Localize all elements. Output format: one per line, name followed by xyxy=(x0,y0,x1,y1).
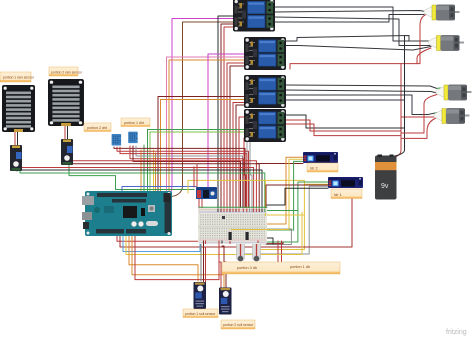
wire darkred ldr1 x256 xyxy=(257,163,303,165)
svg-text:portion 3 db: portion 3 db xyxy=(237,266,257,270)
wire black relay3 motor3 a xyxy=(286,85,437,89)
wire gray loop right xyxy=(266,229,291,245)
wire yellow ldr1 xyxy=(231,159,303,229)
svg-text:portion 2 dht: portion 2 dht xyxy=(87,126,107,130)
wire black relay1 down xyxy=(218,16,236,208)
wire green relay4 bus xyxy=(148,130,245,193)
relay module K2 xyxy=(244,37,286,70)
wire red rtc down xyxy=(193,167,195,187)
wire red relay4 battery xyxy=(286,124,401,136)
wire black relay2 motor2 b xyxy=(286,46,431,51)
motor M2 xyxy=(429,35,465,51)
wire relay1 motor1 b xyxy=(274,11,425,13)
wire red soil1 xyxy=(205,247,207,282)
wire black relay3 merge xyxy=(286,99,405,101)
rtc module xyxy=(196,187,217,199)
wire black relay3 motor4 xyxy=(286,95,435,115)
ldr module 1 xyxy=(303,152,338,163)
label ldr 1 xyxy=(331,189,362,199)
label portion 1 soil sensor xyxy=(183,309,218,318)
wire red rtc down2 xyxy=(196,164,198,187)
wire darkred soil bundle2 xyxy=(222,246,226,288)
wire red soil bundle xyxy=(219,236,221,289)
wire red x397 motor4 xyxy=(392,64,401,158)
label ldr 2 xyxy=(307,163,338,172)
wire darkred modA long xyxy=(114,147,245,208)
probe sensor 1 xyxy=(237,236,245,261)
wire brown relay1-arduino xyxy=(170,22,233,197)
wire yellow jumper on breadboard xyxy=(231,229,289,231)
probe sensor 2 xyxy=(253,236,261,261)
wire red relay4 down2 xyxy=(244,138,246,208)
breadboard jumper parts xyxy=(222,216,249,240)
wire green motor3 xyxy=(437,88,444,90)
svg-text:portion 2 rain sensor: portion 2 rain sensor xyxy=(51,71,83,75)
svg-text:portion 1 db: portion 1 db xyxy=(290,265,310,269)
wire red motor4 branch xyxy=(401,116,437,118)
wire red plate1 driver1 xyxy=(14,131,16,146)
rain sensor plate 1 xyxy=(2,85,35,132)
breadboard xyxy=(198,208,267,244)
wire red motor1 down xyxy=(420,14,427,64)
wire red rain1 long xyxy=(21,168,254,209)
driver board 2 xyxy=(61,139,73,165)
wire yellow ldr2 xyxy=(256,184,304,249)
label portion 1 db xyxy=(121,118,150,127)
wire red modA long xyxy=(117,147,249,208)
wire green ldr2 xyxy=(267,182,328,242)
wire red arduino soil xyxy=(135,234,219,280)
wire red rtc bb xyxy=(198,199,200,208)
wire red bb bottom stub2 xyxy=(281,243,283,262)
svg-text:ldr 2: ldr 2 xyxy=(310,166,319,171)
wire green motor4 xyxy=(435,112,442,114)
wire lightgreen relay4 bus xyxy=(150,132,244,192)
wire tips breadboard bottom xyxy=(204,241,282,245)
wire darkred bb bottom xyxy=(256,242,283,244)
wire darkred soil1 xyxy=(203,244,205,282)
dht module B xyxy=(128,132,138,144)
wire green loop right xyxy=(267,210,298,212)
wire relay1 motor1 d xyxy=(274,15,424,23)
wire darkred relay2 down xyxy=(230,66,246,208)
wire red motor2 down xyxy=(417,48,431,64)
wire red plate2 driver2 xyxy=(64,125,66,140)
wire red relay3 down xyxy=(233,103,246,209)
wire relay1 motor2 a xyxy=(274,7,429,41)
wire red rain2 long xyxy=(66,161,256,208)
motor M4 xyxy=(434,108,470,124)
wire red relay4 down xyxy=(239,117,246,208)
dht module A xyxy=(112,134,122,146)
wire green ldr1 xyxy=(267,161,303,230)
rain sensor plate 2 xyxy=(48,79,84,126)
wire green motor2 xyxy=(429,40,437,42)
wire darkred rain2 long xyxy=(64,163,259,208)
wire black relay2 motor2 slope xyxy=(286,36,409,42)
wire red motor3 down xyxy=(401,95,437,134)
label portion 2 soil sensor xyxy=(221,320,255,329)
wire red arduino bottom loop2 xyxy=(120,199,352,247)
wire red relay2 down xyxy=(227,63,246,208)
wire black ldr2 xyxy=(267,188,328,205)
wire tips breadboard top xyxy=(218,209,265,217)
wire green modA down xyxy=(143,145,145,192)
label portion 2 db xyxy=(84,123,111,132)
wire orange arduino soil2 xyxy=(132,234,224,288)
soil sensor 2 xyxy=(219,288,232,315)
svg-text:portion 1 soil sensor: portion 1 soil sensor xyxy=(185,312,216,316)
wire green across breadboard top xyxy=(199,206,267,208)
wire black battery vertical xyxy=(382,36,405,158)
wire green rain2 rtc xyxy=(69,163,194,190)
motor M3 xyxy=(436,85,472,101)
wire yellow bus down xyxy=(153,150,155,192)
wire orange relay2 bus xyxy=(169,60,244,191)
wire black bb right xyxy=(267,238,273,244)
wire gray relay4 down2 xyxy=(247,142,250,208)
wire black plate2 driver2 xyxy=(67,125,69,140)
wire black relay3 motor3 b xyxy=(286,90,437,93)
wire black soil1 up xyxy=(201,236,222,281)
wire black rain1 long xyxy=(17,170,262,208)
wire darkred modB down xyxy=(133,146,241,208)
driver board 1 xyxy=(10,145,22,171)
svg-text:fritzing: fritzing xyxy=(446,329,467,336)
wire red modB down xyxy=(130,146,243,208)
arduino mega xyxy=(82,191,172,236)
wire red bb bottom stub1 xyxy=(277,243,279,262)
wire darkred relay3 down2 xyxy=(236,105,246,208)
wire darkred ldr2 xyxy=(240,186,328,257)
wire blue arduino rtc xyxy=(122,187,196,194)
svg-text:portion 1 dht: portion 1 dht xyxy=(124,121,144,125)
wire red rtc bb2 xyxy=(201,199,203,208)
ldr module 2 xyxy=(328,177,363,188)
soil sensor 1 xyxy=(194,282,207,309)
wire green motor1 xyxy=(424,10,432,12)
wire orange relay3 bus xyxy=(161,100,245,192)
wire yellow loop right xyxy=(267,214,304,216)
wire gray modB long xyxy=(136,146,243,208)
wire red relay2 y63 xyxy=(290,64,420,69)
wire black relay4 step xyxy=(286,115,405,128)
wire relay1 motor2 c xyxy=(274,17,430,46)
wire blue arduino bottom xyxy=(123,234,200,252)
wire red modA down xyxy=(120,147,247,208)
wire orange ldr1 xyxy=(267,157,303,224)
label portion 1 rain sensor xyxy=(0,72,35,82)
wire green rain1 long xyxy=(20,171,265,208)
relay module K4 xyxy=(244,109,286,142)
battery 9V xyxy=(375,155,397,200)
wire gray relay4 down xyxy=(250,142,252,208)
svg-text:ldr 1: ldr 1 xyxy=(334,192,343,197)
wire orange arduino soil1 xyxy=(129,234,198,281)
svg-text:9v: 9v xyxy=(381,183,389,190)
relay module K1 xyxy=(233,0,275,32)
wire darkred relay3 bus xyxy=(158,97,244,192)
wire red relay4 step xyxy=(286,120,401,131)
wire yellow long y180 xyxy=(188,180,328,193)
wire yellow arduino bottom xyxy=(126,212,302,255)
wire magenta relay1-arduino xyxy=(168,19,233,197)
label portion 3 db strip xyxy=(222,262,340,274)
wire darkred relay1 down xyxy=(221,24,236,208)
wire orange bus down xyxy=(140,150,142,192)
relay module K3 xyxy=(244,75,286,108)
wire black plate1 driver1 xyxy=(17,131,19,146)
svg-text:portion 2 soil sensor: portion 2 soil sensor xyxy=(223,323,254,327)
wire red arduino bottom loop1 xyxy=(117,232,258,241)
wire red relay1 down xyxy=(224,27,236,208)
label portion 2 rain sensor xyxy=(49,67,83,76)
motor M1 xyxy=(424,5,460,21)
wire orange bus down2 xyxy=(155,153,157,192)
wire pink relay2 bus xyxy=(167,57,245,191)
wire magenta relay2 rtc xyxy=(208,54,244,187)
svg-text:portion 1 rain sensor: portion 1 rain sensor xyxy=(3,76,35,80)
wire red motor4 down xyxy=(401,118,436,138)
